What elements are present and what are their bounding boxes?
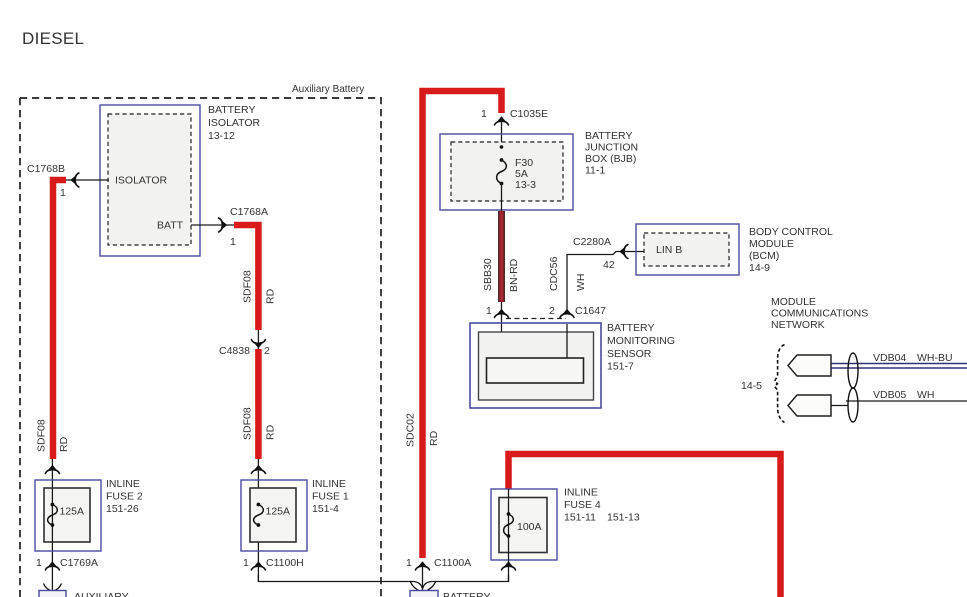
wire isolator to C1768B (66, 179, 109, 181)
svg-text:MODULE: MODULE (749, 238, 794, 250)
svg-text:VDB04: VDB04 (873, 352, 906, 364)
wire at connector C4838 (257, 330, 259, 349)
connector C1769A arrow (45, 561, 59, 570)
inline fuse 4 inner box (499, 498, 547, 553)
connector C1647 dashed joint line (506, 318, 566, 320)
svg-text:C1768A: C1768A (230, 206, 268, 218)
svg-text:14-9: 14-9 (749, 262, 770, 274)
wire BATT to C1768A (191, 224, 234, 226)
connector C1647 pin2 arrow (560, 309, 574, 318)
svg-text:2: 2 (549, 305, 555, 317)
trunk connector C1100A arrow (416, 561, 430, 570)
battery junction box inner dashed (451, 142, 563, 201)
svg-text:42: 42 (603, 259, 615, 271)
svg-text:13-3: 13-3 (515, 179, 536, 191)
network arrow VDB04 (788, 355, 831, 376)
connector C1035E arrow (495, 116, 509, 125)
svg-text:NETWORK: NETWORK (771, 319, 825, 331)
svg-text:MODULE: MODULE (771, 296, 816, 308)
svg-text:151-26: 151-26 (106, 503, 139, 515)
network twisted-pair brace (775, 345, 785, 423)
junction dot BJB (500, 145, 504, 149)
svg-text:11-1: 11-1 (585, 165, 605, 177)
svg-text:WH: WH (917, 389, 935, 401)
connector arrow above fuse1 (251, 465, 265, 474)
label RD middle upper (265, 288, 277, 304)
svg-text:125A: 125A (60, 506, 85, 518)
svg-text:SDC02: SDC02 (405, 413, 417, 447)
wire VDB04 WH-BU double line (831, 363, 967, 365)
fuse element 100A (504, 512, 514, 538)
svg-text:(BCM): (BCM) (749, 250, 779, 262)
svg-text:1: 1 (481, 108, 487, 120)
svg-text:INLINE: INLINE (312, 478, 346, 490)
svg-text:INLINE: INLINE (106, 478, 140, 490)
wire pin2 into sensor (566, 324, 568, 358)
svg-text:2: 2 (264, 345, 270, 357)
svg-text:FUSE 1: FUSE 1 (312, 491, 349, 503)
fuse F30 element (497, 158, 507, 185)
svg-text:DIESEL: DIESEL (22, 29, 84, 48)
inline fuse 1 outer box (241, 480, 307, 551)
svg-text:SDF08: SDF08 (242, 407, 254, 440)
svg-text:1: 1 (60, 187, 66, 199)
svg-text:1: 1 (36, 557, 42, 569)
wire C1100H to battery junction (258, 575, 422, 588)
wire F30 to box bottom (501, 183, 503, 214)
svg-text:C1768B: C1768B (27, 163, 65, 175)
svg-text:LIN B: LIN B (656, 244, 682, 256)
Auxiliary Battery dashed enclosure (20, 98, 381, 597)
svg-text:FUSE 4: FUSE 4 (564, 499, 601, 511)
svg-text:ISOLATOR: ISOLATOR (208, 117, 261, 129)
svg-text:BATTERY: BATTERY (208, 104, 255, 116)
label SBB30 (482, 258, 494, 291)
svg-text:Auxiliary Battery: Auxiliary Battery (292, 84, 364, 95)
inline fuse 1 inner box (250, 488, 296, 542)
svg-text:100A: 100A (517, 521, 542, 533)
svg-text:1: 1 (243, 557, 249, 569)
wire fuse4 to battery junction (423, 575, 509, 588)
svg-text:WH: WH (575, 274, 587, 292)
wire RD SDF08 left (53, 180, 66, 459)
wire fuse2 column (51, 459, 53, 591)
svg-text:C1035E: C1035E (510, 108, 548, 120)
label RD trunk (428, 430, 440, 446)
label BN-RD (508, 258, 520, 292)
label RD middle lower (265, 424, 277, 440)
svg-text:BOX (BJB): BOX (BJB) (585, 153, 636, 165)
wire RD SDF08 middle lower (255, 349, 262, 459)
svg-text:SBB30: SBB30 (482, 258, 494, 291)
svg-text:RD: RD (428, 430, 440, 446)
svg-text:SDF08: SDF08 (242, 270, 254, 303)
label CDC56 (548, 256, 560, 291)
label RD left (58, 436, 70, 452)
battery isolator outer box (100, 105, 200, 256)
svg-text:INLINE: INLINE (564, 487, 598, 499)
connector C4838 arrow (251, 340, 265, 349)
battery monitoring sensor mid box (479, 332, 594, 400)
battery monitoring sensor inner element (487, 358, 584, 383)
auxiliary battery terminal hooks (44, 584, 62, 592)
svg-text:C2280A: C2280A (573, 236, 611, 248)
svg-text:RD: RD (265, 288, 277, 304)
svg-text:BATTERY: BATTERY (607, 322, 654, 334)
svg-text:CDC56: CDC56 (548, 256, 560, 291)
wire SBB30 BN-RD (498, 211, 505, 302)
wire VDB05 WH (831, 405, 848, 407)
connector C1100H arrow (251, 561, 265, 570)
svg-text:C1647: C1647 (575, 305, 606, 317)
wire RD to inline fuse 4 and right drop (509, 454, 781, 597)
svg-text:BODY CONTROL: BODY CONTROL (749, 226, 833, 238)
battery terminal hooks main (410, 581, 436, 592)
svg-text:BATT: BATT (157, 220, 184, 232)
wire through fuse4 (508, 489, 510, 582)
svg-text:151-4: 151-4 (312, 503, 339, 515)
label WH (575, 274, 587, 292)
svg-text:ISOLATOR: ISOLATOR (115, 175, 168, 187)
svg-text:C4838: C4838 (219, 345, 250, 357)
connector C1768A arrow (219, 218, 228, 232)
svg-text:1: 1 (230, 236, 236, 248)
svg-text:14-5: 14-5 (741, 380, 762, 392)
fuse element 125A fuse2 (48, 503, 58, 527)
svg-text:SENSOR: SENSOR (607, 348, 652, 360)
battery isolator inner dashed box (108, 114, 191, 245)
wire trunk to battery (422, 565, 424, 592)
svg-text:RD: RD (265, 424, 277, 440)
connector arrow below fuse4 (502, 561, 516, 570)
connector C1647 pin1 arrow (495, 309, 509, 318)
main battery box partial (410, 591, 438, 597)
wire C1035E into BJB (501, 119, 503, 158)
label SDF08 left (36, 419, 48, 452)
battery junction box outer (440, 134, 573, 210)
label SDF08 middle upper (242, 270, 254, 303)
svg-text:1: 1 (406, 557, 412, 569)
svg-text:JUNCTION: JUNCTION (585, 142, 638, 154)
svg-text:151-11: 151-11 (564, 512, 596, 524)
label SDF08 middle lower (242, 407, 254, 440)
svg-text:BATTERY: BATTERY (585, 130, 632, 142)
svg-text:RD: RD (58, 436, 70, 452)
connector arrow above fuse2 (45, 465, 59, 474)
auxiliary battery box partial (39, 591, 66, 597)
inline fuse 2 outer box (35, 480, 101, 551)
battery monitoring sensor outer (470, 323, 601, 408)
connector C2280A arrow (619, 245, 628, 259)
svg-text:VDB05: VDB05 (873, 389, 906, 401)
svg-text:BN-RD: BN-RD (508, 258, 520, 292)
svg-text:151-7: 151-7 (607, 361, 634, 373)
svg-text:AUXILIARY: AUXILIARY (74, 591, 129, 597)
svg-text:BATTERY: BATTERY (443, 591, 490, 597)
svg-text:COMMUNICATIONS: COMMUNICATIONS (771, 308, 868, 320)
svg-text:C1100H: C1100H (266, 557, 304, 569)
connector C1768B arrow (70, 173, 79, 187)
svg-text:WH-BU: WH-BU (917, 352, 953, 364)
label SDC02 (405, 413, 417, 447)
wire RD SDF08 middle upper (234, 225, 258, 330)
svg-text:1: 1 (486, 305, 492, 317)
twisted pair symbol (848, 353, 858, 422)
network arrow VDB05 (788, 395, 831, 416)
body control module outer (636, 224, 739, 275)
wire through fuse2 (51, 488, 53, 542)
svg-text:151-13: 151-13 (607, 512, 640, 524)
svg-text:13-12: 13-12 (208, 130, 235, 142)
svg-text:SDF08: SDF08 (36, 419, 48, 452)
svg-text:125A: 125A (266, 506, 291, 518)
svg-text:MONITORING: MONITORING (607, 335, 675, 347)
inline fuse 2 inner box (44, 488, 90, 542)
inline fuse 4 outer box (491, 489, 557, 560)
fuse element 125A fuse1 (254, 503, 264, 527)
wire fuse1 column (257, 459, 259, 582)
wire CDC56 WH (567, 252, 644, 312)
wire BMS pin1 (501, 302, 503, 358)
svg-text:FUSE 2: FUSE 2 (106, 491, 143, 503)
body control module inner dashed (644, 233, 729, 266)
svg-text:C1769A: C1769A (60, 557, 98, 569)
svg-text:C1100A: C1100A (434, 557, 471, 569)
trunk wire SDC02 RD (423, 91, 502, 558)
